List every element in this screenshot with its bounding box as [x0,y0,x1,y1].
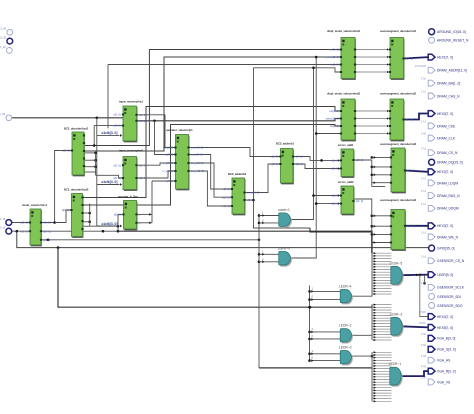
junction arrow arr sd4c [374,233,376,236]
svg-text:SW[9..0]: SW[9..0] [0,226,5,230]
svg-text:1'h1: 1'h1 [421,281,427,285]
wire net md2-sd2 p4 [355,133,390,135]
wire net key0 [12,222,30,224]
wire net gpio long [17,231,428,247]
svg-text:4'h0: 4'h0 [421,343,427,347]
bus ripper comb to LEDR~5 [372,252,392,295]
wire tap l4a [310,290,341,292]
wire net v420 [420,275,428,317]
wire tap comb0 in1 [259,253,279,255]
wire net bcd1 bus to im2 [96,175,123,178]
junction arrow arr ea1 b [338,167,340,169]
svg-text:e_t[3..0]: e_t[3..0] [164,153,174,157]
svg-text:d[0..0]: d[0..0] [331,202,339,206]
port GPIO [429,245,455,251]
svg-text:BC2_decoder/bcd2: BC2_decoder/bcd2 [64,188,89,192]
wire net key1 [12,230,30,232]
svg-text:sevensegment_decoder/sd4: sevensegment_decoder/sd4 [380,198,417,202]
svg-text:1'h1: 1'h1 [421,120,427,124]
svg-text:BC2_decoder/bcd1: BC2_decoder/bcd1 [64,126,89,130]
port VGA_HS [421,354,451,363]
svg-text:4'h0: 4'h0 [421,332,427,336]
block BC3_adder/b2 [222,172,259,215]
junction arrow arr sd1 a [387,48,389,50]
port DRAM_CKE [421,120,456,129]
svg-text:GSENSOR_CS_N: GSENSOR_CS_N [437,259,465,263]
svg-text:AROUND_IO[15..0]: AROUND_IO[15..0] [437,30,466,34]
svg-text:mode_selector/ms1: mode_selector/ms1 [22,203,48,207]
wire net l0 out [350,355,372,357]
svg-text:1'h1: 1'h1 [421,202,427,206]
wire net v260 [258,214,260,368]
port KEY[1..0] [0,217,12,226]
svg-text:displ_mode_selector/md1: displ_mode_selector/md1 [327,29,361,33]
svg-text:e[3..0]: e[3..0] [113,113,121,117]
svg-text:DRAM_ADDR[12..0]: DRAM_ADDR[12..0] [437,69,467,73]
wire clock drop [96,118,98,226]
junction arrow arr l2a [311,330,313,333]
svg-text:sevensegment_decoder/sd3: sevensegment_decoder/sd3 [380,142,417,146]
svg-text:operator_selector/p1: operator_selector/p1 [166,128,193,132]
junction j c1a [258,214,261,217]
wire tap l0a [310,353,341,355]
svg-text:select[2..0]: select[2..0] [326,55,339,59]
wire stub bcd1 o5 [84,171,96,173]
wire net er v152 [151,181,153,223]
port DRAM_LDQM [421,177,459,186]
junction j l0 out [371,355,374,358]
wire net im1 out long [137,119,342,121]
svg-text:DRAM_UDQM: DRAM_UDQM [437,207,459,211]
wire clock net [12,117,123,119]
junction arrow arr l0b [311,359,313,362]
svg-text:d[3..0]: d[3..0] [43,229,51,233]
svg-text:d[3..0]: d[3..0] [114,213,122,217]
gate comb=1 [278,208,292,228]
junction arrow arr c1a [262,214,264,217]
wire stub bcd2 o5 [83,225,90,227]
block BC2_decoder/bcd2 [62,188,89,238]
port VGA_G [421,343,456,352]
svg-text:HEX4[7..0]: HEX4[7..0] [437,315,453,319]
junction arrow arr sd2 c [387,125,389,127]
junction j bcd1 o2 [94,152,97,155]
gate comb=0 [278,247,292,267]
svg-text:x[3..0]: x[3..0] [139,163,147,167]
wire net p1 o1 [189,148,281,157]
junction j box im1 [93,144,96,147]
junction arrow arr sd1 d [387,71,389,73]
svg-text:w[7..0]: w[7..0] [165,179,173,183]
port DRAM_ADDR [415,64,468,73]
wire stub sd3 p4 [372,182,391,184]
svg-text:1'h1: 1'h1 [421,146,427,150]
svg-text:VGA_B[3..0]: VGA_B[3..0] [437,337,455,341]
junction j b2o2 [252,199,255,202]
svg-text:d[3..0]: d[3..0] [62,208,70,212]
wire net box im1 [94,126,123,146]
svg-text:≥1clk[3..0]: ≥1clk[3..0] [102,131,118,135]
junction arrow arr c0a [262,253,264,256]
svg-text:input_memory/im1: input_memory/im1 [119,100,143,104]
svg-text:GSENSOR_SCLK: GSENSOR_SCLK [437,286,465,290]
wire net bottom long [259,367,372,369]
wire tap comb1 in1 [259,215,279,217]
wire stub bcd1 o3 [84,159,96,161]
svg-text:out_s[3..0]: out_s[3..0] [191,146,204,150]
gate LEDR~2 [339,324,353,344]
svg-text:c_out[3..0]: c_out[3..0] [247,191,260,195]
junction arrow arr sd4d [374,241,376,244]
svg-text:DRAM_CLK: DRAM_CLK [437,137,456,141]
port VGA_R [421,365,456,374]
wire net sd1 out [404,57,429,58]
junction j c0a [258,253,261,256]
svg-text:q[3..0]: q[3..0] [356,199,364,203]
port DRAM_DQ [429,159,463,165]
wire stub sd3 p5 [372,186,385,188]
port MAX10_CLK2_50 [0,36,13,44]
wire net bcd1 to displ1 b [84,57,341,151]
junction j msel2 [102,230,105,233]
block encoder_4_2/er [114,195,141,230]
wire net ledr5 out [401,274,429,277]
svg-text:sevensegment_decoder/sd2: sevensegment_decoder/sd2 [380,91,417,95]
junction arrow arr sd4b [374,225,376,228]
svg-text:comb=1: comb=1 [278,208,290,212]
port LEDR [428,272,453,278]
block sevensegment_decoder/sd1 [380,29,417,79]
svg-text:d[1..0]: d[1..0] [331,194,339,198]
svg-text:a[3..0]: a[3..0] [271,162,279,166]
svg-text:s[3..0]: s[3..0] [43,221,51,225]
wire net msel out2 [41,230,118,232]
wire net sd2 out [404,114,429,120]
junction j bcd1 o4 [94,165,97,168]
wire net bcd2 to displ2 b [83,125,342,206]
wire stub sd3 p3 [372,174,391,176]
svg-text:hs[2..0]: hs[2..0] [330,63,339,67]
svg-text:HEX5[7..0]: HEX5[7..0] [437,326,453,330]
junction j c1b [258,222,261,225]
port ADC_CLK_10 [0,45,12,54]
svg-text:ADC_CLK_10: ADC_CLK_10 [0,45,6,49]
wire net im1 o1 [137,115,176,148]
svg-text:sel[3..0]: sel[3..0] [329,48,339,52]
svg-text:LEDR~3: LEDR~3 [390,312,403,316]
wire net er to p1 [152,180,176,182]
svg-text:displ_mode_selector/md2: displ_mode_selector/md2 [327,91,361,95]
wire clk stub encoder [97,225,120,227]
svg-text:HEX0[7..0]: HEX0[7..0] [437,112,453,116]
svg-text:s[7..0]: s[7..0] [406,118,414,122]
junction j ea1a [371,156,374,159]
wire stub sd3 p1 [372,156,391,158]
svg-text:VGA_R[3..0]: VGA_R[3..0] [437,370,456,374]
svg-text:VGA_VS: VGA_VS [437,380,451,384]
svg-text:DRAM_WE_N: DRAM_WE_N [437,235,459,239]
svg-text:select[2..0]: select[2..0] [326,117,339,121]
port DRAM_RAS_N [421,189,460,198]
wire stub bcd1 o2 [84,152,96,154]
svg-text:BC3_adder/b1: BC3_adder/b1 [276,142,295,146]
gate LEDR~5 [390,261,404,285]
svg-text:out_w[3..0]: out_w[3..0] [191,169,204,173]
junction arrow arr c0b [262,260,264,263]
junction arrow arr sd3a [374,156,376,159]
junction arrow arr sd1 c [387,63,389,65]
wire stub bcd1 o4 [84,166,96,168]
gate LEDR~3 [390,312,404,336]
svg-text:a[3..0]: a[3..0] [222,195,230,199]
block errors_add1 [331,143,363,177]
svg-text:AROUND_RESET_N: AROUND_RESET_N [437,39,469,43]
junction arrow arr l0a [311,352,313,355]
svg-text:KEY[1..0]: KEY[1..0] [0,217,5,221]
port VGA_VS [421,376,451,385]
svg-text:1'h0: 1'h0 [421,132,427,136]
junction arrow clk arrow m1 [120,134,122,137]
port DRAM_UDQM [421,202,459,211]
svg-text:1'h1: 1'h1 [421,177,427,181]
svg-text:b[3..0]: b[3..0] [222,204,230,208]
junction arrow arr sd2 d [387,132,389,134]
block operator_selector/p1 [162,128,204,190]
wire net b1 o3 [293,164,341,169]
wire net bcd2 bus v [89,204,91,227]
wire net msel out3 [41,239,259,241]
wire net p1 o4 [189,171,233,206]
wire net p1 o3 [189,163,233,197]
gate LEDR~4 [339,285,353,305]
bus ripper comb to LEDR~3 [372,304,392,342]
wire net to displ1 c [108,64,341,66]
gate LEDR~0 [339,346,353,366]
wire net ea1 out [354,160,372,187]
wire net ea2 out [354,199,372,243]
junction arrow arr sd3c [374,173,376,176]
svg-text:GSENSOR_SDO: GSENSOR_SDO [437,304,463,308]
wire net ea2 feed a [314,195,342,197]
svg-text:GPIO[35..0]: GPIO[35..0] [437,247,454,251]
junction j comb0 top [315,56,318,59]
junction arrow arr c1b [262,221,264,224]
svg-text:LEDR~4: LEDR~4 [339,285,352,289]
junction j ea1b [371,166,374,169]
wire tap l2b [310,338,341,340]
port GSENSOR_SDI [429,293,461,299]
junction j sb0 [308,306,311,309]
svg-text:13'h0000: 13'h0000 [415,64,427,68]
svg-text:c[3..0]: c[3..0] [295,162,303,166]
svg-text:sevensegment_decoder/sd1: sevensegment_decoder/sd1 [380,29,417,33]
wire net ea2 feed b [316,203,341,205]
junction j b1o [320,159,323,162]
junction j sb4 [308,338,311,341]
wire net comb0 md2 [316,133,341,135]
svg-text:LEDR[9..0]: LEDR[9..0] [437,273,453,277]
junction arrow clk arrow m2 [120,183,122,186]
svg-text:s[3..0]: s[3..0] [247,198,255,202]
port HEX0 [428,111,453,117]
wire net md1-sd1 p4 [355,71,390,73]
wire tap l0b [310,360,341,362]
junction j msel2b [117,230,120,233]
svg-text:b[3..0]: b[3..0] [139,176,147,180]
svg-text:e_b[3..0]: e_b[3..0] [163,161,174,165]
junction j bcd2 o4 [88,221,91,224]
svg-text:VGA_G[3..0]: VGA_G[3..0] [437,348,456,352]
junction arrow arr sd2 b [387,117,389,119]
junction arrow arr ledr5 [416,273,418,276]
svg-text:≥1clk[3..0]: ≥1clk[3..0] [102,180,118,184]
svg-text:DRAM_CS_N: DRAM_CS_N [437,151,458,155]
svg-text:sel[3..0]: sel[3..0] [329,109,339,113]
svg-text:c[3..0]: c[3..0] [43,238,51,242]
svg-text:4'h0: 4'h0 [421,365,427,369]
svg-text:1'h1: 1'h1 [421,254,427,258]
svg-text:b[3..0]: b[3..0] [20,229,28,233]
svg-text:LEDR~2: LEDR~2 [339,324,352,328]
wire net comb0 up [289,56,316,258]
svg-text:errors_add2: errors_add2 [338,180,354,184]
junction arrow arr sd2 a [387,110,389,112]
port CLOCK_50 [0,112,12,121]
wire net l4 out [350,294,372,297]
svg-text:LEDR~1: LEDR~1 [389,362,402,366]
svg-text:VGA_HS: VGA_HS [437,359,451,363]
wire net md2-sd2 p3 [355,125,390,127]
svg-text:HEX2[7..0]: HEX2[7..0] [437,170,453,174]
port GSENSOR_SDO [429,303,463,309]
junction arrow arr l4a [311,290,313,293]
junction j ea2c [371,233,374,236]
wire net v420b [424,275,426,283]
block BC3_adder/b1 [271,142,303,184]
block input_memory/im2 [113,148,146,190]
wire net err bus [310,228,372,253]
block sevensegment_decoder/sd4 [380,198,417,250]
wire net md2-sd2 p1 [355,110,390,112]
junction arrow arr l2b [311,337,313,340]
wire net msel out1b [55,210,72,223]
svg-text:b[3..0]: b[3..0] [139,119,147,123]
wire net md1-sd1 p3 [355,64,390,66]
junction j bcd1 o3 [94,159,97,162]
junction j im1 out [153,120,156,123]
svg-text:2'h0: 2'h0 [421,77,427,81]
svg-text:8'hFF: 8'hFF [419,321,426,325]
svg-text:≥1clk[3..0]: ≥1clk[3..0] [102,222,118,226]
svg-text:s[7..0]: s[7..0] [406,57,414,61]
svg-text:c[3..0]: c[3..0] [271,155,279,159]
wire stub sd4 p2 [372,225,391,227]
svg-text:LEDR~5: LEDR~5 [390,261,403,265]
port HEX3 [428,223,453,229]
svg-text:e[3..0]: e[3..0] [113,163,121,167]
svg-text:a[3..0]: a[3..0] [20,221,28,225]
junction j ea2b [371,225,374,228]
wire net bottom bus [58,248,372,308]
port MAX10_CLK1_50 [0,27,13,36]
block displ_mode_selector/md1 [326,29,361,79]
svg-text:DRAM_CAS_N: DRAM_CAS_N [437,94,460,98]
wire net msel out2 ext [118,231,372,253]
wire net v2535 [253,68,255,200]
svg-text:d[1..0]: d[1..0] [331,159,339,163]
junction j ledr5 [419,274,422,277]
junction arrow arr ea2 a [338,194,340,196]
wire net er out1 [137,213,152,215]
svg-text:d[0..0]: d[0..0] [331,167,339,171]
svg-text:1'h1: 1'h1 [421,231,427,235]
block errors_add2 [331,180,363,215]
svg-text:DRAM_DQ[15..0]: DRAM_DQ[15..0] [437,161,463,165]
block mode_selector/ms1 [20,203,51,246]
svg-text:DRAM_CKE: DRAM_CKE [437,124,456,128]
svg-text:1'h0: 1'h0 [421,354,427,358]
svg-text:DRAM_BA[1..0]: DRAM_BA[1..0] [437,82,460,86]
junction arrow clk arrow er [120,225,122,228]
junction j sb3 [308,331,311,334]
port VGA_B [421,332,456,341]
svg-text:1'h0: 1'h0 [421,376,427,380]
svg-text:a[3..0]: a[3..0] [113,124,121,128]
wire net l2 out [350,334,372,336]
junction j sb6 [308,359,311,362]
junction arrow arr er1 [149,213,151,216]
junction j ea2 b [315,202,318,205]
wire net b1 o1 [293,157,341,161]
svg-text:errors_add1: errors_add1 [338,143,354,147]
wire net b2 o1 [245,164,281,193]
wire clk stub m2 [97,184,120,186]
wire net ledr1 out [400,371,428,376]
wire net comb1 up [289,68,313,220]
wire net im1 o2 [155,121,176,155]
wire net ledr3 out [401,326,428,327]
junction j sb1 [308,290,311,293]
svg-text:comb=0: comb=0 [278,247,290,251]
junction j msel3 [47,239,50,242]
wire net bcd2 to displ2 a [83,107,342,198]
svg-text:1'h1: 1'h1 [421,189,427,193]
wire net sd3 out [405,171,428,172]
junction j ea2 a [312,194,315,197]
block input_memory/im1 [113,100,146,142]
junction arrow arr er2 [149,221,151,224]
wire stub sd4 p3 [372,233,391,235]
wire net md2-sd2 p2 [355,118,390,120]
port HEX5 [419,321,453,330]
junction arrow arr l4b [311,298,313,301]
svg-text:out_t[3..0]: out_t[3..0] [191,153,203,157]
junction j sb2 [308,298,311,301]
wire tap l4b [310,299,341,301]
wire net b2 o2 [245,200,311,228]
port SW[9..0] [0,226,12,235]
wire net err disp1 [254,68,342,72]
svg-text:HEX1[7..0]: HEX1[7..0] [437,56,453,60]
port AROUND_IO [429,29,466,35]
wire net to displ1 c drop [107,65,109,129]
svg-text:GSENSOR_SDI: GSENSOR_SDI [437,295,461,299]
port HEX1 [428,54,453,60]
port DRAM_CS_N [421,146,458,155]
wire net bcd1 to displ1 a [84,50,341,146]
block BC2_decoder/bcd1 [62,126,89,175]
junction arrow arr ea1 a [338,159,340,161]
